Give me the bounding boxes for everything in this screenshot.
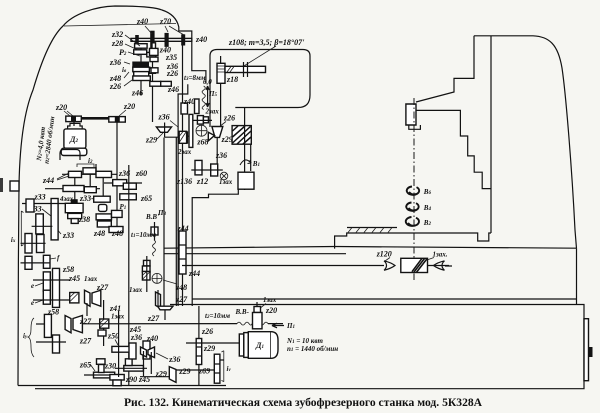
gear row2 b	[84, 187, 96, 193]
svg-text:В4: В4	[423, 204, 432, 212]
gear bar z69	[214, 354, 220, 383]
svg-text:z33-: z33-	[79, 194, 94, 203]
shaft row A	[21, 242, 46, 244]
gear bar iy1	[44, 314, 51, 337]
z38 clutch knob	[71, 200, 77, 204]
gear row1 c	[96, 171, 112, 177]
svg-text:z29: z29	[203, 344, 215, 353]
dial circle 2	[152, 273, 162, 283]
bracket ix	[21, 211, 23, 246]
svg-text:П3: П3	[157, 209, 166, 217]
gear z36	[113, 180, 127, 186]
motor shaft left	[73, 122, 75, 126]
i2 bracket	[77, 164, 94, 167]
arbor hatch	[227, 67, 234, 73]
gear stack left of z50	[97, 359, 106, 365]
cover seam line	[64, 24, 176, 27]
svg-text:z26: z26	[223, 113, 235, 122]
svg-text:z33: z33	[34, 193, 46, 202]
svg-text:z33: z33	[62, 231, 74, 240]
shaft I top bar	[131, 38, 192, 41]
svg-text:Рис. 132. Кинематическая схема: Рис. 132. Кинематическая схема зубофрезе…	[124, 396, 483, 409]
svg-text:В1: В1	[252, 160, 260, 168]
svg-text:z46: z46	[167, 85, 179, 94]
svg-text:e: e	[31, 282, 34, 290]
spindle nose rect	[406, 104, 416, 125]
bracket lower staircase	[416, 110, 491, 188]
shaft e2 row	[33, 299, 71, 301]
worm box	[401, 258, 428, 272]
svg-text:z45: z45	[68, 274, 80, 283]
BB screw gear	[151, 227, 158, 235]
svg-text:z26: z26	[109, 82, 121, 91]
column right edge lower	[576, 249, 578, 305]
leader z70	[165, 26, 184, 35]
gear z40 on shaft I	[151, 31, 154, 48]
gear tick a	[136, 36, 139, 45]
shaft iy	[36, 341, 66, 343]
bar below P1	[96, 214, 111, 220]
z90 gear stack	[110, 375, 124, 381]
shaft left row3	[22, 203, 65, 205]
leader z36 screw	[170, 121, 178, 128]
leader z20 right	[119, 110, 126, 116]
svg-text:iу: iу	[23, 332, 28, 340]
leader e2	[35, 300, 43, 303]
bevel z29 plate	[169, 367, 176, 383]
column left edge	[490, 36, 492, 233]
svg-text:z27: z27	[79, 337, 92, 346]
arrow t3	[206, 86, 209, 107]
second vertical	[250, 144, 252, 171]
svg-text:z68: z68	[196, 138, 208, 147]
svg-text:1зах: 1зах	[129, 286, 143, 294]
svg-text:z12: z12	[196, 177, 208, 186]
flare right	[434, 261, 445, 271]
svg-text:z28: z28	[111, 39, 123, 48]
left handwheel knob	[10, 181, 19, 191]
screw line with springs	[83, 323, 283, 325]
gear bars mid	[129, 343, 136, 359]
svg-text:z40: z40	[183, 97, 195, 106]
svg-text:iх: iх	[11, 236, 16, 244]
svg-text:z30: z30	[104, 362, 116, 371]
motor D2 base	[61, 148, 87, 155]
svg-text:2зах: 2зах	[205, 108, 220, 116]
vertical shaft to table	[244, 108, 246, 191]
machine body outline	[18, 6, 192, 386]
svg-text:z27: z27	[175, 295, 188, 304]
hob unit frame box	[210, 50, 310, 128]
leader z33 d	[56, 228, 61, 234]
svg-text:iв: iв	[122, 66, 127, 74]
vertical shaft III	[116, 122, 118, 232]
dial circle	[196, 125, 207, 136]
left worm box	[179, 131, 186, 143]
svg-text:f: f	[57, 254, 60, 262]
gear z65	[120, 194, 137, 200]
spring t3	[202, 86, 205, 110]
worm box e	[70, 293, 79, 303]
svg-text:П1: П1	[286, 322, 295, 330]
base block	[35, 305, 584, 389]
bevel cone right	[208, 132, 214, 141]
gear bars row B	[25, 256, 32, 269]
index plunger symbol	[220, 172, 228, 180]
svg-text:В6: В6	[423, 188, 432, 196]
gear row2 a	[63, 186, 84, 192]
tall gear z44	[179, 231, 186, 274]
gear z70 on shaft I	[165, 33, 168, 46]
svg-text:z70: z70	[159, 17, 171, 26]
head lower staircase outline	[192, 175, 238, 306]
svg-text:z65: z65	[140, 194, 152, 203]
svg-text:z44: z44	[42, 176, 54, 185]
svg-text:z38: z38	[78, 215, 90, 224]
vertical shaft from I	[152, 45, 154, 122]
hob cylinder	[217, 63, 225, 83]
svg-text:z18: z18	[226, 75, 238, 84]
hob cluster shaft	[190, 119, 212, 121]
worm symbol B6	[407, 187, 419, 195]
bevel plates e	[85, 290, 91, 306]
gear bar z65	[94, 372, 115, 378]
vertical feed screw funnel	[156, 127, 171, 132]
svg-text:z29: z29	[221, 135, 233, 144]
tall gear z58	[53, 268, 60, 307]
left edge artifact	[0, 178, 3, 192]
z50 vertical shaft	[118, 311, 120, 377]
table centre dash-dot line	[413, 98, 415, 280]
gear bar iy2	[53, 335, 60, 353]
shaft z65 row	[84, 368, 147, 375]
svg-text:z60: z60	[135, 169, 147, 178]
svg-text:z48: z48	[93, 229, 105, 238]
shaft row B	[21, 262, 51, 264]
housing staircase top	[178, 84, 188, 306]
worm z41	[100, 319, 109, 328]
svg-text:В2: В2	[423, 219, 432, 227]
shaft e row	[33, 279, 70, 281]
shaft bevel v	[158, 290, 165, 320]
link bar	[81, 117, 109, 120]
leader z108	[239, 46, 276, 69]
leader z120	[385, 258, 390, 262]
rotation arc B1	[240, 160, 251, 165]
shaft iy upper	[36, 323, 45, 325]
bevels bottom pair	[141, 347, 147, 357]
svg-text:iv: iv	[227, 365, 232, 373]
vertical shaft II	[182, 40, 184, 233]
right column outline	[474, 36, 577, 249]
hob slide bracket upper profile	[416, 36, 474, 102]
motor D1 rib	[270, 332, 272, 359]
worm hatch band	[412, 258, 427, 272]
bevel plate v vertical	[156, 292, 161, 308]
gear below shaft I	[152, 43, 156, 51]
svg-text:z48: z48	[111, 229, 123, 238]
clutch hatched	[232, 126, 251, 145]
table surface hatched	[347, 227, 397, 229]
svg-text:1зах: 1зах	[111, 313, 125, 321]
leader z20 left	[64, 111, 73, 116]
svg-text:z36: z36	[168, 355, 180, 364]
svg-text:z20: z20	[55, 103, 67, 112]
gear bars row A	[25, 234, 32, 254]
svg-text:z40: z40	[136, 17, 148, 26]
spring t1	[153, 240, 156, 256]
svg-text:z29: z29	[145, 136, 157, 145]
svg-text:z108; m=3,5; β=18°07': z108; m=3,5; β=18°07'	[228, 38, 305, 47]
arrow	[272, 323, 284, 328]
gear bar z50	[112, 346, 133, 352]
leader z48	[163, 280, 177, 284]
svg-text:z35: z35	[165, 53, 177, 62]
svg-text:z44: z44	[188, 269, 200, 278]
nose tab	[409, 125, 421, 129]
small gear above	[125, 359, 132, 366]
worm symbol B4	[406, 203, 418, 211]
worm symbol B2	[406, 217, 419, 226]
left shaft	[180, 135, 189, 137]
svg-text:6,0: 6,0	[203, 78, 212, 86]
svg-text:2зах: 2зах	[177, 148, 192, 156]
bearing box	[238, 172, 254, 189]
svg-text:z65: z65	[79, 361, 91, 370]
svg-text:z36: z36	[130, 333, 142, 342]
svg-text:z120: z120	[376, 250, 392, 259]
svg-text:z36: z36	[109, 58, 121, 67]
funnel down shaft	[216, 137, 218, 164]
small gear cluster hob	[195, 99, 200, 114]
svg-text:z136: z136	[176, 177, 192, 186]
body bottom edge	[18, 385, 226, 387]
frame segment below shaft I	[192, 41, 206, 83]
svg-text:z29: z29	[178, 367, 190, 376]
z38 clutch box	[65, 203, 83, 212]
svg-text:z46: z46	[131, 89, 143, 98]
gear left row3	[26, 199, 34, 212]
z48 gear b	[109, 227, 123, 233]
worm shaft left	[182, 265, 384, 267]
svg-text:1зах: 1зах	[263, 296, 277, 304]
bevel funnel	[212, 127, 223, 138]
vertical shaft II lower	[182, 274, 184, 306]
gear bar z30 row	[124, 366, 144, 372]
svg-text:P2: P2	[119, 48, 127, 57]
svg-text:n2=2840 об/мин: n2=2840 об/мин	[43, 116, 57, 164]
bracket iv	[222, 351, 224, 382]
motor D2 neck	[68, 123, 83, 128]
base side knob	[589, 348, 593, 357]
shaft to motor	[186, 342, 239, 344]
svg-text:z50: z50	[107, 332, 119, 341]
housing line b	[175, 138, 177, 307]
worm stack shaft	[146, 256, 148, 292]
gear tick b	[182, 35, 185, 45]
leader z40	[145, 26, 152, 34]
brace iy	[28, 318, 34, 357]
gear z65 mate	[94, 196, 111, 202]
shaft row1	[62, 173, 117, 175]
stack center shaft	[140, 48, 142, 95]
gear z60	[123, 183, 136, 189]
svg-text:z90: z90	[125, 375, 137, 384]
z48 gear a	[97, 221, 111, 227]
vertical shafts rows	[75, 164, 103, 204]
leader 1zax	[424, 258, 434, 262]
svg-text:z20: z20	[265, 306, 277, 315]
svg-text:z32: z32	[111, 30, 123, 39]
leader f	[50, 258, 56, 259]
leader z29 screw	[157, 133, 163, 139]
gears on shaft II	[181, 103, 188, 114]
svg-text:t2=10мм: t2=10мм	[205, 312, 230, 320]
hob vertical shaft	[220, 56, 222, 127]
bar right P1	[112, 210, 123, 217]
shaft row y226	[32, 225, 53, 227]
gear small col a	[150, 48, 159, 55]
svg-text:z26: z26	[166, 69, 178, 78]
table top outline	[335, 233, 491, 249]
gear row1 a	[69, 171, 82, 177]
small gear pair lower	[195, 160, 202, 175]
bed line upper	[164, 247, 577, 249]
tall gear bar 2	[36, 214, 44, 234]
worm stack hatched	[142, 271, 150, 280]
gear bar e	[43, 272, 50, 292]
svg-text:z40: z40	[195, 35, 207, 44]
bevel plate v horizontal	[158, 306, 173, 310]
worm stack box	[142, 266, 150, 272]
flare left	[384, 261, 395, 271]
gearbox wall vertical	[128, 165, 130, 385]
tall gear bar 1	[51, 199, 58, 240]
rounded housing top	[60, 150, 80, 161]
svg-text:z36: z36	[158, 113, 170, 122]
svg-text:P1: P1	[120, 203, 127, 211]
svg-text:z20: z20	[123, 102, 135, 111]
svg-text:В.В-: В.В-	[235, 308, 250, 316]
coupling z20	[254, 307, 261, 313]
worm stack gear	[144, 260, 151, 266]
svg-text:1зах: 1зах	[219, 178, 233, 186]
left tall gear bar	[189, 114, 193, 147]
bed top line	[192, 298, 576, 300]
P1 clutch	[99, 204, 107, 211]
gear row1 b	[83, 168, 96, 174]
vertical to z41	[87, 300, 104, 346]
bed line lower	[164, 253, 346, 255]
shaft row2	[45, 183, 142, 189]
shaft bottom	[140, 360, 224, 377]
worm shaft right	[428, 265, 452, 268]
base side tab	[584, 319, 589, 381]
svg-text:n1 = 1440 об/мин: n1 = 1440 об/мин	[287, 345, 338, 353]
svg-text:t1=10мм: t1=10мм	[131, 231, 156, 239]
motor D1 body	[248, 332, 278, 359]
arbor bearings	[244, 62, 248, 77]
svg-text:П5: П5	[208, 90, 217, 98]
bevel plates iy	[65, 316, 71, 333]
motor D2 body	[64, 129, 86, 148]
svg-text:1зах.: 1зах.	[433, 251, 448, 259]
svg-text:z58: z58	[62, 265, 74, 274]
svg-text:z26: z26	[201, 327, 213, 336]
svg-text:N1 = 10 квт: N1 = 10 квт	[286, 337, 323, 345]
motor D1 flange	[239, 334, 244, 356]
gear stack A	[135, 44, 148, 49]
leaders z44	[57, 173, 69, 180]
svg-text:z27: z27	[79, 317, 92, 326]
hob arbor	[225, 66, 266, 72]
gear bar e2	[43, 290, 50, 304]
svg-text:z69: z69	[198, 367, 210, 376]
leader e	[35, 283, 43, 286]
gear z46 pair	[150, 81, 161, 86]
gear bar vertical z26	[198, 306, 200, 385]
svg-text:z36: z36	[215, 151, 227, 160]
z38 tab	[71, 219, 78, 224]
housing line a	[163, 138, 165, 307]
coupling left	[66, 116, 82, 122]
svg-text:z27: z27	[147, 314, 160, 323]
z38 bar	[68, 213, 82, 218]
coupling right	[109, 117, 126, 123]
svg-text:В.В': В.В'	[145, 213, 159, 221]
svg-text:1зах: 1зах	[84, 275, 98, 283]
